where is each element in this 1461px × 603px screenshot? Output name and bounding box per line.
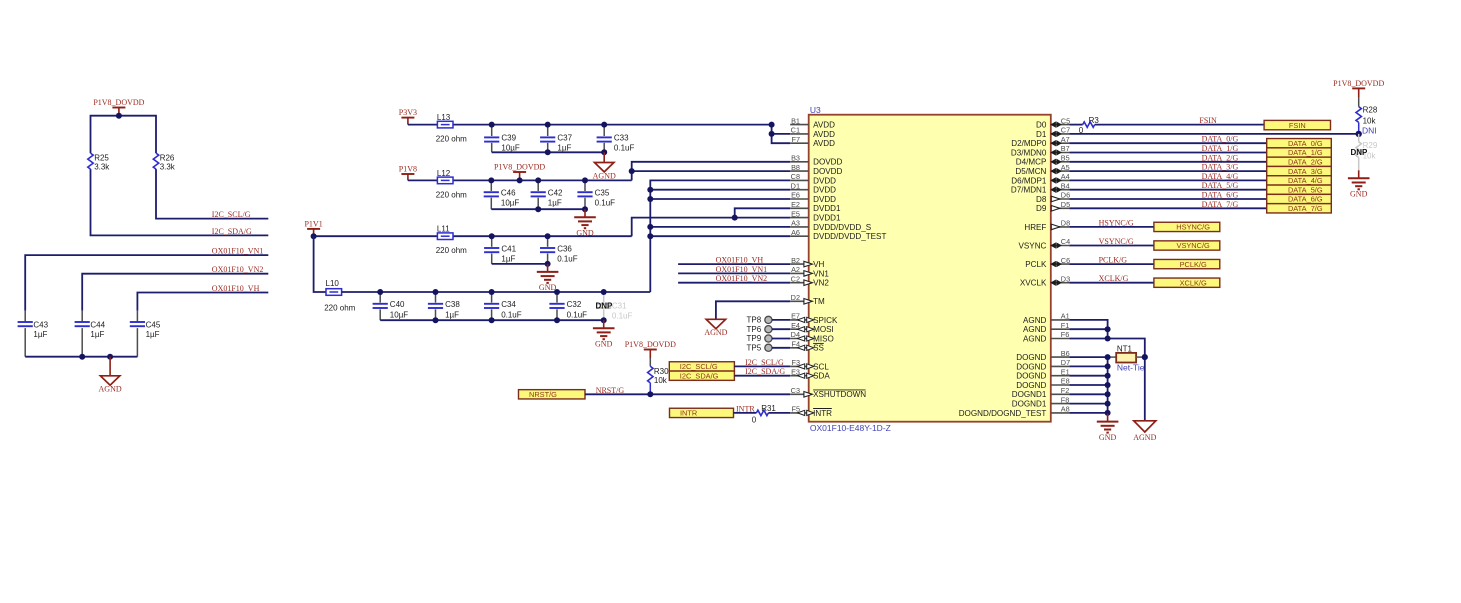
svg-text:I2C_SDA/G: I2C_SDA/G (680, 371, 719, 380)
wire OX01F10_VN2 (82, 274, 268, 311)
test point TP5 (747, 343, 791, 352)
svg-text:D9: D9 (1036, 204, 1047, 213)
svg-text:DATA_1/G: DATA_1/G (1202, 144, 1239, 153)
junction D1/FSIN node (1356, 131, 1362, 137)
wire AGND rail row1 (492, 151, 605, 153)
capacitor C43 (18, 311, 49, 357)
svg-text:DOGND: DOGND (1016, 362, 1046, 371)
svg-text:DATA_3/G: DATA_3/G (1288, 167, 1323, 176)
port DATA_6/G (1267, 194, 1332, 203)
U3 pin D1 (DVDD) (790, 181, 836, 194)
wire TM to AGND (716, 301, 790, 319)
svg-text:DVDD1: DVDD1 (813, 204, 841, 213)
junction DVDD@A3 (647, 224, 653, 230)
svg-text:HSYNC/G: HSYNC/G (1176, 223, 1210, 232)
svg-text:MOSI: MOSI (813, 325, 834, 334)
svg-text:E8: E8 (1061, 377, 1070, 386)
svg-text:VN1: VN1 (813, 269, 829, 278)
port DATA_7/G (1267, 204, 1332, 213)
wire DVDD rail (342, 291, 651, 293)
svg-text:OX01F10_VN2: OX01F10_VN2 (716, 274, 768, 283)
svg-text:TP5: TP5 (747, 343, 762, 352)
svg-text:TP6: TP6 (747, 325, 762, 334)
svg-text:I2C_SCL/G: I2C_SCL/G (212, 210, 251, 219)
svg-text:DATA_5/G: DATA_5/G (1288, 185, 1323, 194)
svg-text:SCL: SCL (813, 362, 829, 371)
svg-text:0.1uF: 0.1uF (557, 255, 578, 264)
svg-text:D6/MDP1: D6/MDP1 (1011, 176, 1047, 185)
junction DVDD@E6 (647, 196, 653, 202)
svg-text:DOGND: DOGND (1016, 372, 1046, 381)
svg-text:B6: B6 (1061, 349, 1070, 358)
junction NT1 right (1142, 354, 1148, 360)
svg-text:10k: 10k (654, 376, 668, 385)
svg-text:0.1uF: 0.1uF (567, 310, 588, 319)
test point TP8 (747, 316, 791, 325)
U3 pin C5 (D0) (1036, 116, 1070, 129)
port XCLK/G (1154, 278, 1220, 287)
U3 pin F8 (DOGND1) (1012, 395, 1070, 408)
svg-text:D3: D3 (1061, 274, 1070, 283)
junction DVDD@C32 (554, 289, 560, 295)
resistor R25 (88, 153, 111, 172)
U3 pin B2 (VH) (790, 256, 824, 269)
port DATA_2/G (1267, 157, 1332, 166)
junction DVDD@D1 (647, 187, 653, 193)
U3 pin F2 (DOGND1) (1012, 386, 1070, 399)
capacitor C31 (DNP) (596, 292, 633, 321)
svg-text:DVDD: DVDD (813, 195, 836, 204)
junction DVDD1@C36 (545, 233, 551, 239)
svg-text:L11: L11 (437, 225, 450, 234)
U3 pin F5 (INTR) (790, 405, 832, 418)
wire DVDD1 rail (314, 235, 632, 237)
svg-text:1µF: 1µF (33, 330, 47, 339)
ground AGND (C43-C45) (99, 357, 122, 394)
svg-text:DATA_2/G: DATA_2/G (1288, 157, 1323, 166)
svg-text:I2C_SCL/G: I2C_SCL/G (680, 362, 718, 371)
wire DVDD bus to C8/D1/E6/A3/A6 (650, 180, 790, 292)
svg-text:E1: E1 (1061, 367, 1070, 376)
U3 pin C6 (PCLK) (1025, 256, 1070, 269)
svg-text:TP8: TP8 (747, 316, 762, 325)
U3 pin D2 (TM) (790, 293, 825, 306)
svg-text:1µF: 1µF (90, 330, 104, 339)
wire DATA_1/G (1069, 152, 1266, 154)
svg-text:C7: C7 (1061, 126, 1070, 135)
svg-text:10k: 10k (1363, 116, 1377, 125)
svg-text:E5: E5 (791, 209, 800, 218)
svg-text:DVDD1: DVDD1 (813, 214, 841, 223)
wire AGND rail C43-C45 (25, 356, 137, 358)
svg-text:L13: L13 (437, 113, 451, 122)
wire OX01F10_VH stub (678, 263, 790, 265)
junction row3 gnd@C36 (545, 261, 551, 267)
test point TP9 (747, 334, 791, 343)
U3 pin A2 (VN1) (790, 265, 829, 278)
U3 pin A4 (D6/MDP1) (1011, 172, 1069, 185)
svg-text:0.1uF: 0.1uF (612, 312, 633, 321)
svg-text:INTR: INTR (680, 409, 697, 418)
U3 pin D5 (D9) (1036, 200, 1070, 213)
svg-text:AGND: AGND (1133, 433, 1156, 442)
junction AGND@F1 (1105, 326, 1111, 332)
svg-text:VSYNC: VSYNC (1019, 241, 1047, 250)
junction AGND@F6 (1105, 336, 1111, 342)
U3 pin D8 (HREF) (1024, 219, 1070, 232)
svg-text:P1V8_DOVDD: P1V8_DOVDD (494, 163, 545, 172)
wire AGND to net-tie column (1069, 339, 1144, 421)
U3 pin F3 (SCL) (790, 358, 829, 371)
svg-text:1µF: 1µF (501, 255, 515, 264)
svg-text:AVDD: AVDD (813, 121, 835, 130)
svg-text:E6: E6 (791, 191, 800, 200)
svg-text:C44: C44 (90, 320, 105, 329)
svg-text:R3: R3 (1089, 116, 1100, 125)
svg-text:B8: B8 (791, 163, 800, 172)
svg-text:XVCLK: XVCLK (1020, 279, 1047, 288)
junction AVDD@C33 (601, 122, 607, 128)
U3 pin B4 (D7/MDN1) (1011, 181, 1070, 194)
capacitor C39 (484, 125, 520, 153)
svg-text:PCLK/G: PCLK/G (1180, 260, 1207, 269)
ground GND (R29) (1348, 170, 1370, 198)
svg-text:B2: B2 (791, 256, 800, 265)
capacitor C32 (549, 292, 587, 320)
svg-text:B1: B1 (791, 116, 800, 125)
svg-text:C43: C43 (33, 320, 48, 329)
port DATA_4/G (1267, 176, 1332, 185)
junction DVDD@C31 (601, 289, 607, 295)
power P1V8_DOVDD (DOVDD tap) (494, 163, 545, 181)
wire DOVDD bus to B3/B8 (632, 162, 791, 181)
wire R25 to I2C_SDA/G (91, 169, 269, 235)
svg-text:C36: C36 (557, 244, 572, 253)
svg-text:C33: C33 (614, 133, 629, 142)
U3 pin B7 (D3/MDN0) (1011, 144, 1070, 157)
power P1V8_DOVDD (R28) (1333, 79, 1384, 107)
svg-text:OX01F10_VN1: OX01F10_VN1 (716, 265, 768, 274)
power P1V8_DOVDD (R30) (625, 340, 676, 366)
svg-text:I2C_SDA/G: I2C_SDA/G (745, 367, 785, 376)
svg-text:A8: A8 (1061, 405, 1070, 414)
U3 pin B3 (DOVDD) (790, 154, 842, 167)
wire GND rail row2 (491, 208, 585, 210)
wire AGND bus (1069, 320, 1107, 339)
svg-text:DATA_6/G: DATA_6/G (1288, 195, 1323, 204)
U3 pin B6 (DOGND) (1016, 349, 1069, 362)
svg-text:D8: D8 (1061, 219, 1070, 228)
svg-text:XCLK/G: XCLK/G (1099, 274, 1129, 283)
capacitor C36 (540, 236, 578, 264)
svg-text:L10: L10 (326, 279, 340, 288)
wire PCLK/G (1069, 263, 1154, 265)
svg-text:SPICK: SPICK (813, 316, 838, 325)
svg-text:AGND: AGND (1023, 325, 1047, 334)
junction R30@XSHUTDOWN (647, 391, 653, 397)
resistor R30 (648, 366, 670, 394)
capacitor C34 (484, 292, 522, 320)
svg-text:DNP: DNP (596, 302, 614, 311)
U3 pin E6 (DVDD) (790, 191, 836, 204)
svg-text:DATA_4/G: DATA_4/G (1288, 176, 1323, 185)
svg-text:MISO: MISO (813, 334, 834, 343)
port DATA_5/G (1267, 185, 1332, 194)
svg-text:A2: A2 (791, 265, 800, 274)
svg-text:DOGND: DOGND (1016, 353, 1046, 362)
svg-text:DOGND1: DOGND1 (1012, 390, 1047, 399)
svg-text:D5/MCN: D5/MCN (1015, 167, 1046, 176)
U3 pin E8 (DOGND) (1016, 377, 1069, 390)
junction DOVDD@C46 (488, 177, 494, 183)
svg-text:AGND: AGND (99, 385, 122, 394)
U3 pin E2 (DVDD1) (790, 200, 841, 213)
svg-text:D6: D6 (1061, 191, 1070, 200)
svg-text:OX01F10_VH: OX01F10_VH (212, 284, 260, 293)
svg-text:INTR: INTR (736, 404, 755, 413)
junction row4 gnd@C31 (601, 317, 607, 323)
svg-text:DVDD: DVDD (813, 176, 836, 185)
svg-text:C4: C4 (1061, 237, 1070, 246)
svg-text:C35: C35 (595, 189, 610, 198)
svg-text:P1V8: P1V8 (399, 165, 417, 174)
wire GND rail row3 (492, 263, 548, 265)
svg-text:DNP: DNP (1351, 148, 1369, 157)
svg-text:C1: C1 (791, 126, 800, 135)
wire DATA_4/G (1069, 179, 1266, 181)
svg-text:DATA_1/G: DATA_1/G (1288, 148, 1323, 157)
U3 pin C7 (D1) (1036, 126, 1070, 139)
capacitor C38 (428, 292, 460, 320)
wire XSHUTDOWN (585, 393, 790, 395)
resistor R29 (DNP) (1351, 134, 1378, 170)
svg-text:F7: F7 (791, 135, 800, 144)
wire P1V8_DOVDD rail to R25/R26 (91, 116, 157, 153)
svg-text:TP9: TP9 (747, 334, 762, 343)
U3 pin C3 (XSHUTDOWN) (790, 386, 866, 399)
svg-text:R25: R25 (94, 154, 109, 163)
svg-text:A7: A7 (1061, 135, 1070, 144)
svg-text:0.1uF: 0.1uF (501, 310, 522, 319)
svg-text:HREF: HREF (1024, 223, 1046, 232)
svg-text:DATA_4/G: DATA_4/G (1202, 172, 1239, 181)
svg-text:AGND: AGND (593, 171, 616, 180)
port DATA_0/G (1267, 139, 1332, 148)
junction DVDD@C34 (489, 289, 495, 295)
port HSYNC/G (1154, 222, 1220, 231)
resistor R28 (1356, 106, 1378, 134)
svg-text:GND: GND (1099, 433, 1117, 442)
capacitor C41 (484, 236, 517, 264)
U3 pin A7 (D2/MDP0) (1011, 135, 1069, 148)
capacitor C35 (577, 180, 615, 209)
svg-text:D1: D1 (791, 181, 800, 190)
junction DOGND row28 (1105, 382, 1111, 388)
svg-text:D7/MDN1: D7/MDN1 (1011, 186, 1047, 195)
ground AGND (row1) (593, 152, 616, 180)
wire R31 to chip (768, 412, 790, 414)
svg-text:AVDD: AVDD (813, 130, 835, 139)
svg-text:DATA_6/G: DATA_6/G (1202, 191, 1239, 200)
svg-text:B3: B3 (791, 154, 800, 163)
U3 pin E7 (SPICK) (790, 312, 838, 325)
svg-text:D2/MDP0: D2/MDP0 (1011, 139, 1047, 148)
U3 pin F7 (AVDD) (790, 135, 835, 148)
svg-text:A3: A3 (791, 219, 800, 228)
svg-text:10µF: 10µF (501, 144, 520, 153)
junction DOVDD@B8 (629, 168, 635, 174)
svg-text:OX01F10-E48Y-1D-Z: OX01F10-E48Y-1D-Z (810, 423, 891, 433)
wire OX01F10_VN1 stub (678, 272, 790, 274)
junction AVDD@C39 (489, 122, 495, 128)
svg-text:F1: F1 (1061, 321, 1070, 330)
junction DVDD@C38 (433, 289, 439, 295)
svg-text:C3: C3 (791, 386, 800, 395)
junction DOVDD@C35 (582, 177, 588, 183)
svg-text:220 ohm: 220 ohm (436, 135, 467, 144)
svg-text:A5: A5 (1061, 163, 1070, 172)
svg-text:INTR: INTR (813, 409, 832, 418)
svg-text:DATA_0/G: DATA_0/G (1202, 135, 1239, 144)
power P1V8_DOVDD (I2C pull-ups) (93, 98, 144, 116)
svg-text:I2C_SCL/G: I2C_SCL/G (745, 358, 784, 367)
port DATA_1/G (1267, 148, 1332, 157)
resistor R26 (153, 153, 176, 172)
inductor L13 (436, 113, 467, 144)
junction row1 gnd@C33 (601, 149, 607, 155)
wire HSYNC/G (1069, 226, 1154, 228)
junction DOGND row26 (1105, 363, 1111, 369)
capacitor C45 (130, 311, 161, 357)
junction P1V1 stem (311, 233, 317, 239)
ground GND (row2) (574, 209, 596, 237)
power P1V8 (399, 165, 417, 181)
svg-text:VSYNC/G: VSYNC/G (1177, 241, 1211, 250)
svg-text:U3: U3 (810, 105, 821, 115)
svg-text:DOGND/DOGND_TEST: DOGND/DOGND_TEST (959, 409, 1047, 418)
svg-text:A1: A1 (1061, 312, 1070, 321)
svg-text:P1V8_DOVDD: P1V8_DOVDD (93, 98, 144, 107)
svg-text:SDA: SDA (813, 372, 830, 381)
svg-text:P1V8_DOVDD: P1V8_DOVDD (625, 340, 676, 349)
svg-text:C34: C34 (501, 300, 516, 309)
svg-text:FSIN: FSIN (1199, 116, 1217, 125)
wire VSYNC/G (1069, 245, 1154, 247)
U3 pin B5 (D4/MCP) (1016, 154, 1070, 167)
svg-text:DVDD: DVDD (813, 186, 836, 195)
svg-text:220 ohm: 220 ohm (324, 303, 355, 312)
svg-text:C32: C32 (567, 300, 582, 309)
port NRST/G (519, 390, 586, 399)
wire OX01F10_VN1 (25, 255, 268, 311)
svg-text:TM: TM (813, 297, 825, 306)
U3 pin A1 (AGND) (1023, 312, 1070, 325)
svg-text:SS: SS (813, 344, 824, 353)
U3 pin C1 (AVDD) (790, 126, 835, 139)
svg-text:220 ohm: 220 ohm (436, 246, 467, 255)
svg-text:GND: GND (1350, 190, 1368, 199)
capacitor C33 (597, 125, 635, 153)
wire P1V1 to L10 (314, 236, 326, 292)
svg-text:3.3k: 3.3k (160, 163, 176, 172)
svg-text:AGND: AGND (1023, 334, 1047, 343)
wire XCLK/G (1069, 282, 1154, 284)
svg-text:AGND: AGND (1023, 316, 1047, 325)
svg-text:DATA_5/G: DATA_5/G (1202, 181, 1239, 190)
capacitor C42 (531, 180, 563, 209)
svg-text:D1: D1 (1036, 130, 1047, 139)
capacitor C46 (484, 180, 520, 209)
svg-text:DOGND1: DOGND1 (1012, 400, 1047, 409)
svg-text:C40: C40 (390, 300, 405, 309)
svg-text:1µF: 1µF (146, 330, 160, 339)
inductor L11 (436, 225, 467, 256)
svg-text:E2: E2 (791, 200, 800, 209)
test point TP6 (747, 325, 791, 334)
junction DVDD@A6 (647, 233, 653, 239)
U3 pin B1 (AVDD) (790, 116, 835, 129)
svg-text:I2C_SDA/G: I2C_SDA/G (212, 227, 252, 236)
port PCLK/G (1154, 259, 1220, 268)
U3 pin A8 (DOGND/DOGND_TEST) (959, 405, 1070, 418)
svg-text:DVDD/DVDD_TEST: DVDD/DVDD_TEST (813, 232, 886, 241)
port I2C_SDA/G (669, 371, 734, 380)
svg-text:1µF: 1µF (445, 310, 459, 319)
U3 pin B8 (DOVDD) (790, 163, 842, 176)
svg-text:3.3k: 3.3k (94, 163, 110, 172)
junction DVDD1@E5 (732, 215, 738, 221)
svg-text:GND: GND (595, 339, 613, 348)
svg-text:VH: VH (813, 260, 824, 269)
svg-text:C5: C5 (1061, 116, 1070, 125)
U3 pin E5 (DVDD1) (790, 209, 841, 222)
svg-text:VN2: VN2 (813, 279, 829, 288)
U3 pin D7 (DOGND) (1016, 358, 1070, 371)
junction DOGND row29 (1105, 391, 1111, 397)
svg-text:B5: B5 (1061, 154, 1070, 163)
svg-text:PCLK/G: PCLK/G (1099, 256, 1128, 265)
svg-text:220 ohm: 220 ohm (436, 190, 467, 199)
junction AVDD@C37 (545, 122, 551, 128)
wire OX01F10_VH (137, 293, 268, 311)
svg-text:P3V3: P3V3 (399, 108, 417, 117)
junction row2 gnd@C42 (535, 206, 541, 212)
port FSIN (1264, 120, 1330, 129)
junction DVDD@C40 (377, 289, 383, 295)
wire DOVDD rail (408, 179, 632, 181)
wire GND rail row4 (380, 319, 604, 321)
svg-text:P1V1: P1V1 (304, 220, 322, 229)
wire SDA (734, 375, 790, 377)
svg-text:D3/MDN0: D3/MDN0 (1011, 148, 1047, 157)
junction DOGND row25 (1105, 354, 1111, 360)
junction DVDD1@C41 (489, 233, 495, 239)
svg-text:DNI: DNI (1362, 125, 1377, 135)
U3 pin F4 (SS) (790, 340, 824, 353)
svg-text:D4/MCP: D4/MCP (1016, 158, 1047, 167)
svg-text:B7: B7 (1061, 144, 1070, 153)
junction row4 gnd@C38 (433, 317, 439, 323)
capacitor C37 (540, 125, 573, 153)
U3 pin A6 (DVDD/DVDD_TEST) (790, 228, 886, 241)
resistor R31 (752, 404, 777, 424)
U3 pin C4 (VSYNC) (1019, 237, 1071, 250)
svg-text:OX01F10_VH: OX01F10_VH (716, 256, 764, 265)
U3 pin E4 (MOSI) (790, 321, 834, 334)
svg-text:B4: B4 (1061, 181, 1070, 190)
svg-text:Net-Tie: Net-Tie (1117, 362, 1145, 372)
svg-text:1µF: 1µF (548, 199, 562, 208)
